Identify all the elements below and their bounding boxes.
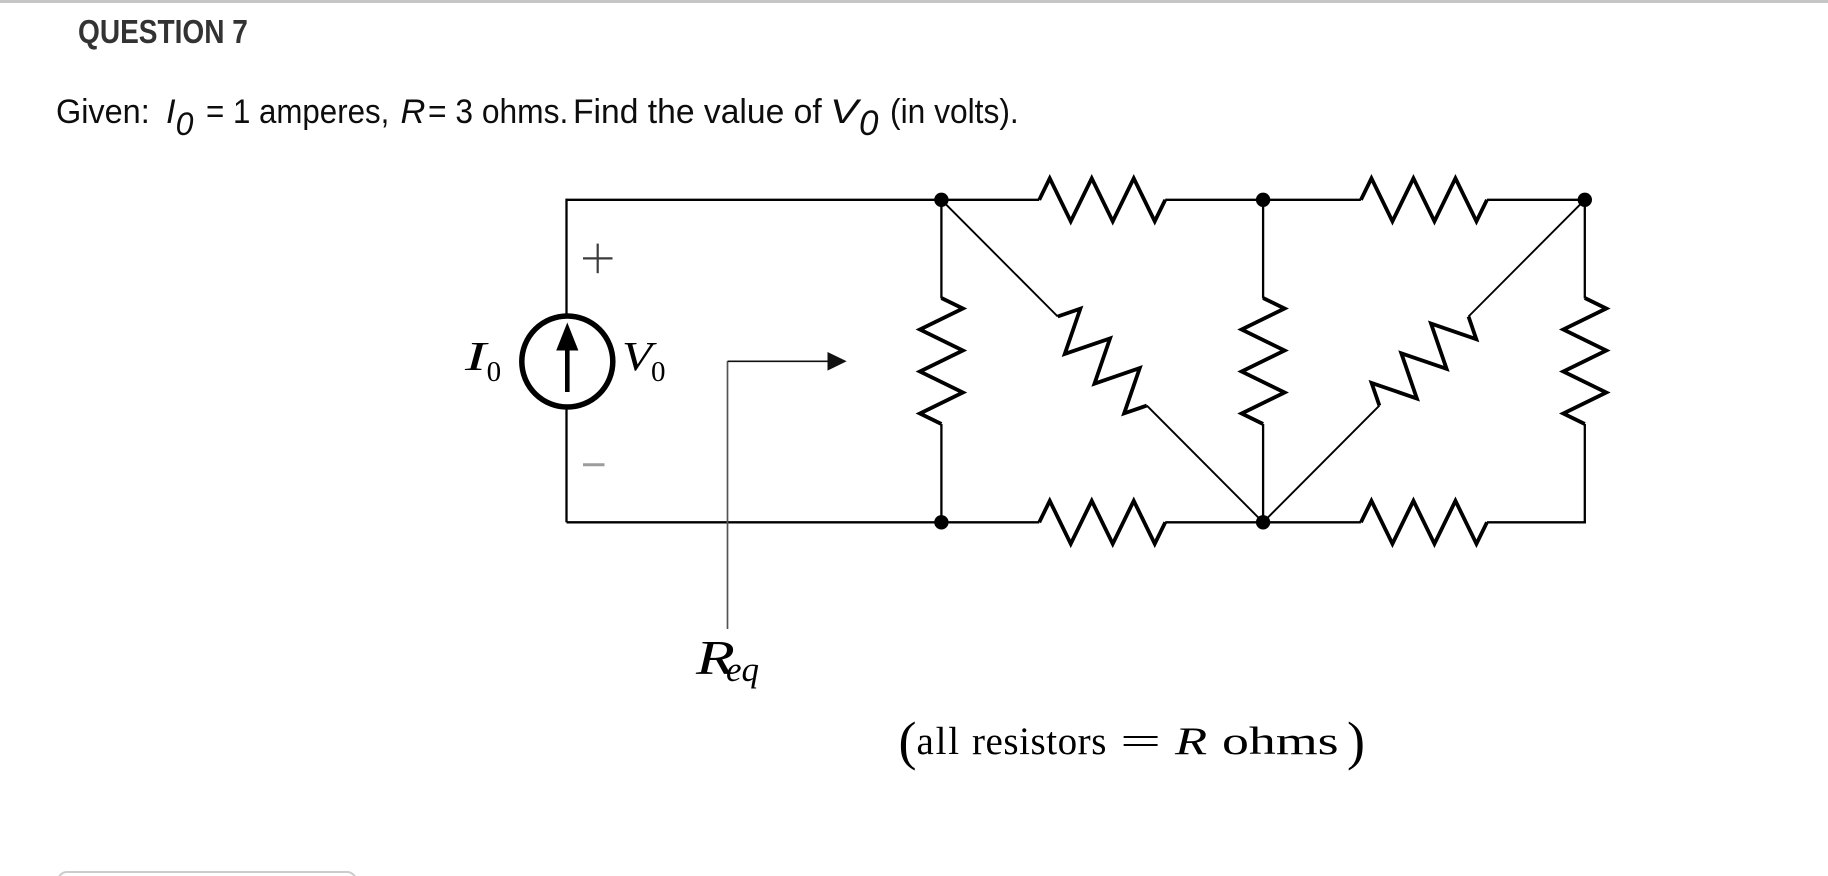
note word ohms: [1222, 722, 1339, 761]
problem statement: I0: [166, 95, 193, 140]
label V0: [622, 336, 666, 387]
wire diagonal node C to resistor R7: [1469, 200, 1585, 317]
wire top from source to node A: [567, 199, 942, 201]
problem statement: = 3 ohms.: [428, 95, 568, 130]
current source arrow shaft: [565, 346, 570, 392]
current source I0 circle: [522, 316, 613, 407]
note italic R: [1175, 722, 1207, 761]
answer input box: [57, 871, 357, 876]
wire resistor R1 down to node D: [940, 424, 942, 522]
Req pointer horizontal arrow line: [728, 360, 831, 362]
resistor R8 vertical right: [1563, 298, 1606, 424]
node B junction dot: [1256, 193, 1270, 207]
note equals sign: [1120, 722, 1161, 761]
wire top node A to resistor R2: [941, 199, 1039, 201]
wire bottom node E to resistor R9: [1263, 521, 1361, 523]
heading QUESTION 7: [78, 13, 248, 51]
node A junction dot: [934, 193, 948, 207]
node E junction dot: [1256, 515, 1270, 529]
Req pointer vertical line: [727, 361, 729, 629]
wire resistor R8 down to right corner: [1584, 424, 1586, 523]
note all resistors = R ohms, opening paren: [899, 714, 917, 768]
wire source branch lower: [565, 407, 567, 523]
note word all: [917, 722, 961, 761]
wire node C down to resistor R8: [1584, 200, 1586, 299]
label I0: [465, 336, 501, 387]
node D junction dot: [934, 515, 948, 529]
note all resistors = R ohms, closing paren: [1347, 714, 1365, 768]
wire resistor R4 down to node E: [1262, 424, 1264, 522]
wire node B down to resistor R4: [1262, 200, 1264, 299]
wire bottom resistor R9 to right corner: [1487, 521, 1586, 523]
problem statement: V0: [830, 95, 878, 141]
top divider line: [0, 0, 1828, 3]
wire top resistor R2 to node B: [1165, 199, 1263, 201]
resistor R6 top right: [1361, 178, 1487, 221]
problem statement: R: [401, 95, 426, 130]
wire top node B to resistor R6: [1263, 199, 1361, 201]
resistor R5 bottom left: [1039, 501, 1165, 544]
resistor R3 diagonal left: [1042, 301, 1162, 421]
wire bottom node D to resistor R5: [941, 521, 1039, 523]
wire diagonal resistor R7 to node E: [1263, 406, 1379, 523]
minus polarity sign: [583, 463, 605, 466]
Req pointer arrowhead: [828, 352, 847, 371]
resistor R2 top left: [1039, 178, 1165, 221]
resistor R9 bottom right: [1361, 501, 1487, 544]
label Req: [696, 633, 759, 687]
wire diagonal resistor R3 to node E: [1147, 406, 1263, 523]
note word resistors: [972, 722, 1107, 761]
current source arrowhead: [556, 323, 578, 351]
problem statement: = 1 amperes,: [206, 95, 389, 130]
wire bottom resistor R5 to node E: [1165, 521, 1263, 523]
wire top resistor R6 to node C: [1487, 199, 1585, 201]
wire bottom from source to node D: [567, 521, 942, 523]
node C junction dot: [1578, 193, 1592, 207]
resistor R7 diagonal right: [1364, 301, 1484, 421]
resistor R1 vertical left: [920, 298, 963, 424]
wire source branch upper: [565, 199, 567, 317]
plus polarity sign: [583, 244, 613, 274]
wire diagonal node A to resistor R3: [941, 200, 1057, 317]
problem statement: Given:: [56, 95, 150, 130]
problem statement: (in volts).: [890, 95, 1019, 130]
resistor R4 vertical middle: [1242, 298, 1285, 424]
problem statement: Find the value of: [573, 95, 822, 130]
wire node A down to resistor R1: [940, 200, 942, 299]
